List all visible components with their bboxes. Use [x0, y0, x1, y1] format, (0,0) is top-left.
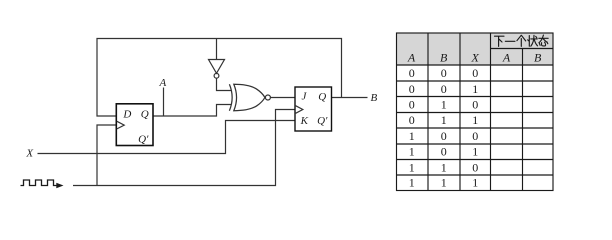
- header letters: [407, 50, 542, 64]
- JK flip-flop U4 box: [295, 87, 332, 131]
- svg-text:1: 1: [409, 176, 415, 190]
- inverter U2: [209, 60, 225, 79]
- wire X input to K: [38, 121, 296, 154]
- svg-text:0: 0: [472, 98, 478, 112]
- table data digits: [409, 66, 478, 190]
- svg-text:1: 1: [441, 98, 447, 112]
- svg-text:1: 1: [472, 176, 478, 190]
- svg-text:D: D: [122, 109, 131, 121]
- clock waveform source: [21, 180, 57, 186]
- wire top feedback rail B to D: [97, 39, 342, 117]
- svg-text:B: B: [440, 50, 448, 64]
- svg-text:Q′: Q′: [138, 133, 149, 145]
- wire DFF clock branch: [97, 125, 116, 186]
- xnor gate U3: [229, 84, 270, 110]
- JK flip-flop U4 clock triangle: [296, 106, 303, 114]
- clock arrow head: [56, 183, 63, 189]
- svg-text:X: X: [25, 148, 34, 160]
- svg-text:Q: Q: [141, 109, 149, 121]
- svg-text:1: 1: [441, 160, 447, 174]
- char zhuang: [528, 35, 538, 46]
- svg-text:1: 1: [409, 160, 415, 174]
- svg-text:0: 0: [409, 98, 415, 112]
- svg-text:0: 0: [472, 66, 478, 80]
- wire inverter input tap: [216, 39, 218, 60]
- svg-text:1: 1: [472, 113, 478, 127]
- svg-text:0: 0: [441, 66, 447, 80]
- D flip-flop U1 box: [116, 104, 153, 146]
- table grid: [397, 33, 554, 191]
- char tai: [539, 35, 548, 46]
- svg-text:0: 0: [472, 129, 478, 143]
- table header shading: [397, 33, 554, 65]
- svg-text:J: J: [301, 91, 307, 103]
- svg-text:0: 0: [409, 82, 415, 96]
- svg-text:0: 0: [409, 113, 415, 127]
- svg-text:1: 1: [472, 82, 478, 96]
- svg-text:1: 1: [472, 145, 478, 159]
- labels for circuit: [25, 77, 377, 159]
- svg-text:1: 1: [441, 176, 447, 190]
- wire XNOR output to J: [270, 97, 295, 99]
- D flip-flop U1 clock triangle: [117, 121, 124, 129]
- wire JK Q to B: [332, 97, 368, 99]
- svg-text:A: A: [502, 50, 511, 64]
- svg-text:A: A: [159, 77, 167, 89]
- wire inverter output to XNOR upper input: [217, 78, 232, 90]
- char ge: [517, 35, 526, 46]
- svg-text:1: 1: [441, 113, 447, 127]
- svg-text:0: 0: [441, 129, 447, 143]
- svg-text:0: 0: [441, 145, 447, 159]
- svg-text:1: 1: [409, 129, 415, 143]
- wire clock rail: [73, 110, 295, 186]
- char yi: [505, 40, 515, 42]
- svg-text:B: B: [534, 50, 542, 64]
- wire node A tap: [163, 88, 165, 117]
- svg-text:Q: Q: [318, 91, 326, 103]
- svg-text:1: 1: [409, 145, 415, 159]
- svg-text:0: 0: [409, 66, 415, 80]
- svg-text:K: K: [300, 115, 309, 127]
- svg-text:Q′: Q′: [317, 115, 328, 127]
- svg-text:X: X: [471, 50, 480, 64]
- svg-text:0: 0: [441, 82, 447, 96]
- svg-text:B: B: [371, 92, 378, 104]
- svg-text:0: 0: [472, 160, 478, 174]
- svg-text:A: A: [407, 50, 416, 64]
- truth table: [397, 33, 554, 191]
- header CJK 下一个状态: [495, 35, 549, 46]
- char xia: [495, 36, 505, 46]
- wire DFF Q to XNOR lower input: [154, 105, 232, 117]
